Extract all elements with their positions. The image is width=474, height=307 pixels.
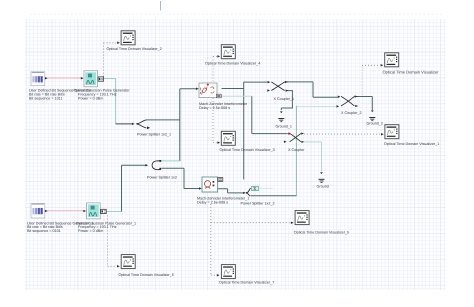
power splitter 1x2_1: [132, 120, 150, 129]
faint page boundary dotted line: [30, 13, 444, 15]
svg-text:Ground: Ground: [317, 184, 329, 188]
schematic grid background: [25, 19, 446, 290]
wire pink bit-seq-gen to pulse-gen (bottom): [46, 210, 84, 212]
wire X coupler_2 out to ground_2: [355, 97, 373, 111]
wire X coupler_1 out to X coupler_2: [285, 82, 338, 97]
optical time domain visualizer_6: [117, 255, 135, 269]
wire pulse-gen-2 output (light): [107, 211, 122, 213]
svg-text:Power = 0 dBm: Power = 0 dBm: [78, 229, 103, 233]
small ruler tick top: [160, 1, 162, 11]
wire X coupler lower out to ground (light): [302, 142, 322, 172]
wire pink bit-seq-gen to pulse-gen (top): [46, 77, 83, 79]
dashed monitor line X coupler_2 to optical time domain visualizer: [361, 66, 363, 95]
ground_1: [278, 111, 284, 122]
dashed monitor line pulse-gen-2 to visualizer_6: [108, 216, 116, 267]
optical time domain visualizer_2: [117, 31, 135, 45]
wire MZI-1 out2 (light): [222, 95, 252, 97]
X coupler_2: [336, 95, 358, 107]
ground_2: [369, 110, 375, 121]
dashed monitor line MZI-2 out to visualizer_7: [211, 204, 216, 275]
dashed monitor line X coupler to visualizer_1: [304, 133, 380, 135]
svg-text:Bit sequence = 1011: Bit sequence = 1011: [29, 96, 62, 100]
X coupler (third): [284, 132, 304, 143]
svg-text:X Coupler_1: X Coupler_1: [274, 97, 295, 101]
dashed monitor line pulse-gen-1 to visualizer_2: [104, 43, 118, 77]
wire faint to X coupler_2 lower input: [297, 106, 336, 108]
optical gaussian pulse generator (top): [81, 71, 104, 87]
svg-text:Power Splitter 1x2_1: Power Splitter 1x2_1: [137, 133, 171, 137]
svg-text:Power Splitter 1x2_2: Power Splitter 1x2_2: [241, 202, 275, 206]
optical time domain visualizer (top right): [381, 53, 399, 67]
wire combiner bottom input: [250, 195, 296, 197]
svg-text:Optical Time Domain Visualizer: Optical Time Domain Visualizer_4: [205, 61, 260, 65]
wire into power splitter 1x2_1: [116, 123, 132, 125]
svg-text:Ground_1: Ground_1: [276, 124, 292, 128]
optical gaussian pulse generator_1 (bottom): [83, 203, 106, 219]
mach-zehnder interferometer MZI-2: [199, 177, 223, 192]
wire down to X coupler input: [252, 96, 288, 133]
svg-text:Optical Time Domain Visualizer: Optical Time Domain Visualizer: [383, 69, 440, 74]
optical time domain visualizer_3: [217, 131, 235, 145]
wire X coupler_1 lower out to ground_1: [281, 91, 292, 110]
wire vertical bus x180: [179, 89, 181, 161]
ground (center): [319, 172, 325, 183]
wire MZI-1 junction down (hanging bus): [243, 89, 245, 180]
svg-text:Optical Time Domain Visualizer: Optical Time Domain Visualizer_1: [384, 142, 439, 146]
svg-text:Power = 0 dBm: Power = 0 dBm: [78, 96, 103, 100]
svg-text:Optical Time Domain Visualizer: Optical Time Domain Visualizer_2: [107, 47, 162, 51]
svg-text:Optical Time Domain Visualizer: Optical Time Domain Visualizer_6: [119, 273, 174, 277]
X coupler_1: [267, 81, 288, 92]
wire splitter-2 top output (light) to bus: [161, 160, 180, 162]
wire MZI-2 output to combiner: [216, 189, 245, 193]
svg-text:X Coupler: X Coupler: [288, 148, 305, 152]
svg-text:Optical Time Domain Visualizer: Optical Time Domain Visualizer_7: [219, 281, 274, 285]
wire MZI-1 out1 up to X coupler_1: [222, 82, 268, 88]
wire bus to MZI-1 input: [180, 88, 197, 90]
svg-text:Delay = 2.5e-008 s: Delay = 2.5e-008 s: [197, 200, 228, 204]
power splitter 1x2_2 (mirrored combiner): [243, 186, 258, 196]
svg-text:X Coupler_2: X Coupler_2: [341, 111, 362, 115]
svg-text:Delay = 2.5e-008 s: Delay = 2.5e-008 s: [199, 106, 230, 110]
wire loop vertical x296 to combiner: [295, 106, 297, 196]
optical time domain visualizer_5: [291, 211, 309, 225]
wire combiner output (light): [258, 187, 272, 189]
dashed monitor branch to visualizer_5: [211, 222, 290, 224]
power splitter 1x2 (second): [145, 160, 161, 170]
mach-zehnder interferometer MZI-1: [196, 83, 221, 98]
svg-text:Optical Time Domain Visualizer: Optical Time Domain Visualizer_3: [220, 148, 275, 152]
svg-text:Power Splitter 1x2: Power Splitter 1x2: [147, 176, 177, 180]
svg-text:Optical Time Domain Visualizer: Optical Time Domain Visualizer_5: [294, 230, 349, 234]
optical time domain visualizer_1: [381, 125, 399, 139]
wire up to splitter-2 input: [122, 165, 147, 211]
wire pulse-gen-1 output down to splitter-1: [104, 79, 116, 124]
dashed monitor line MZI-1 input to visualizer_4 and visualizer_3: [213, 56, 217, 142]
user defined bit sequence generator (top): [31, 72, 48, 86]
wire splitter-1 top output to vertical bus: [146, 119, 180, 121]
optical time domain visualizer_7: [217, 265, 236, 279]
optical time domain visualizer_4: [217, 45, 235, 59]
user defined bit sequence generator_1 (bottom): [31, 203, 48, 218]
svg-text:Bit sequence = 0101: Bit sequence = 0101: [27, 229, 61, 233]
wire splitter-2 bottom output to MZI-2: [162, 168, 200, 188]
svg-text:Ground_2: Ground_2: [367, 121, 383, 125]
